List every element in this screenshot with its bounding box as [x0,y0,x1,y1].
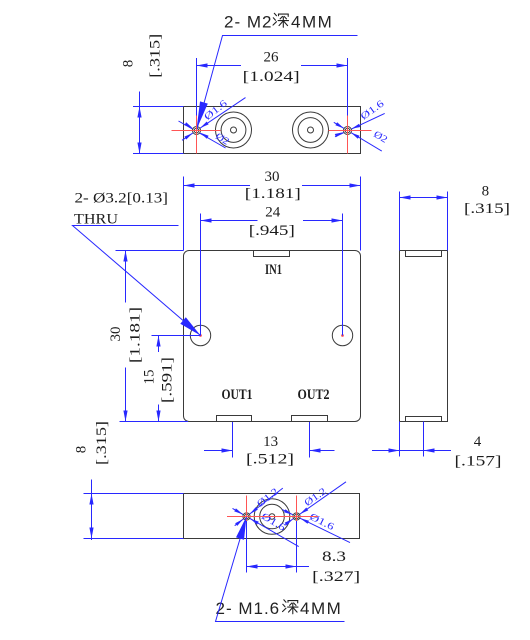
svg-text:OUT2: OUT2 [298,387,330,403]
dimension text [1.181] [245,186,301,202]
centerline cross bottom holes (red) [227,496,318,545]
top view body outline [184,107,361,154]
dimension 15 extension line [152,335,201,337]
dimension text 26 [264,49,280,65]
IN1 label [265,262,282,278]
dimension 8.3 line and arrows [247,564,310,568]
callout leader arrowhead M1.6 [236,517,247,540]
label phi1.6 at left hole [202,98,229,123]
svg-text:13: 13 [263,434,278,450]
svg-text:[.945]: [.945] [249,223,295,239]
M2 tapped hole right (top view) [344,127,352,135]
dimension text [.315] bottom (rotated) [94,421,110,465]
svg-text:[.157]: [.157] [455,454,502,470]
arrowheads around bottom-left hole [234,507,258,526]
dimension 8 (top view height) extension lines [133,107,184,154]
svg-text:8: 8 [121,60,137,68]
svg-text:8.3: 8.3 [322,549,346,565]
dimension 8 bottom line and arrows [89,480,93,541]
front view body outline [184,251,361,422]
label phi1.2 at bottom-right hole [303,486,329,509]
M1.6 tapped hole right (bottom view) [293,513,300,520]
svg-text:2- Ø3.2[0.13]: 2- Ø3.2[0.13] [75,191,169,207]
label phi1.2 at bottom-left hole [255,486,281,509]
svg-text:30: 30 [265,169,280,185]
label phi1.6 at bottom-right hole [308,512,336,533]
callout text 2- M2 deep 4MM [224,13,333,32]
svg-text:24: 24 [265,205,281,221]
side view body outline [400,251,448,422]
bottom connector circles [254,499,290,535]
M2 tapped hole left (top view) [193,127,201,135]
connector J2 circles (top view right SMA) [293,112,329,148]
svg-text:[.591]: [.591] [160,357,176,403]
dimension text 13 [263,434,278,450]
IN1 connector tab [254,251,290,257]
svg-text:[.327]: [.327] [312,569,360,585]
svg-text:IN1: IN1 [265,262,282,278]
arrowheads around left M2 hole [184,122,208,140]
svg-text:2- M1.6: 2- M1.6 [216,599,281,618]
dimension 15 line and arrows [156,336,160,422]
dimension 24 extension lines [201,214,343,336]
dimension text 30 [265,169,280,185]
mounting hole right (phi3.2) [332,325,352,345]
svg-text:8: 8 [73,446,89,454]
dimension text 8 side [482,183,490,199]
dimension text [.591] (rotated) [160,357,176,403]
dimension 8 side extension lines [400,192,448,251]
dimension 8 bottom extension lines [84,494,184,539]
svg-text:8: 8 [482,183,490,199]
dimension 26 extension lines [197,58,348,131]
dimension text 4 [474,434,482,450]
dimension 13 line and arrows [204,448,335,452]
dimension text [.315] side [464,201,510,217]
dimension text [1.181] left (rotated) [128,307,144,363]
svg-text:OUT1: OUT1 [222,387,253,403]
dimension 30 left extension lines [116,251,189,422]
dimension text [.315] (rotated) [148,34,164,78]
dimension text 8 bottom (rotated) [73,446,89,454]
hole diameter leader lines at bottom-right M1.6 hole [282,482,350,543]
dimension text 24 [265,205,281,221]
centerline cross left M2 hole (red) [172,116,221,154]
svg-text:30: 30 [108,327,124,342]
arrowheads around right M2 hole [335,122,360,138]
dimension text 8.3 [322,549,346,565]
svg-text:[.315]: [.315] [464,201,510,217]
M1.6 tapped hole left (bottom view) [243,513,250,520]
dimension 8.3 extension lines [247,521,297,573]
bottom view body outline [184,494,360,539]
callout leader line for M1.6 [216,517,345,622]
dimension 4 extension lines [400,422,424,457]
label phi1.6 at right hole [359,98,387,122]
OUT1 connector tab [217,416,252,422]
dimension text [.512] [246,452,294,468]
dimension 30 top extension lines [184,177,361,251]
hole diameter leader lines at top-right M2 hole [334,113,385,151]
callout leader arrowhead M2 [197,101,208,129]
dimension 30 top line and arrows [184,183,361,187]
svg-text:4: 4 [474,434,482,450]
dimension 8 side line and arrows [400,195,448,199]
mounting hole left (phi3.2) [190,325,210,345]
dimension text [1.024] [243,69,300,85]
dimension 26 line and arrows [197,63,348,67]
svg-text:[.315]: [.315] [148,34,164,78]
callout text 2- phi3.2[0.13] THRU [74,191,168,228]
svg-text:[.512]: [.512] [246,452,294,468]
svg-text:[1.024]: [1.024] [243,69,300,85]
label phi2 at right hole [371,129,389,146]
connector J1 circles (top view left SMA) [216,112,252,148]
dimension text [.327] [312,569,360,585]
centerline cross right M2 hole (red) [329,116,372,154]
svg-text:2- M2: 2- M2 [224,13,272,32]
arrowheads around bottom-right hole [284,508,309,526]
callout leader line for phi3.2 [73,226,201,336]
dimension text 15 (rotated) [142,370,158,385]
side view top lid tab [406,251,442,257]
OUT1 label [222,387,253,403]
dimension 13 extension lines [233,422,310,458]
callout leader arrowhead phi3.2 [180,317,200,335]
label phi1.6 at bottom-left hole [259,511,287,534]
svg-text:[1.181]: [1.181] [128,307,144,363]
dimension text [.157] [455,454,502,470]
hole diameter leader lines at top-left M2 hole [179,98,246,148]
callout leader line for M2 [197,36,358,131]
dimension text 30 left (rotated) [108,327,124,342]
svg-text:15: 15 [142,370,158,385]
dimension 30 left line and arrows [123,251,127,422]
dimension text [.945] [249,223,295,239]
side view bottom lid tab [406,417,442,422]
OUT2 connector tab [292,416,328,422]
dimension 8 line and arrows [137,92,141,154]
dimension text 8 (rotated) [121,60,137,68]
dimension 24 line and arrows [201,218,343,222]
svg-text:4MM: 4MM [300,599,342,618]
svg-text:4MM: 4MM [291,13,333,32]
callout text 2- M1.6 deep 4MM [216,599,343,618]
svg-text:[1.181]: [1.181] [245,186,301,202]
hole diameter leader lines at bottom-left M1.6 hole [233,488,299,546]
svg-text:[.315]: [.315] [94,421,110,465]
svg-text:26: 26 [264,49,280,65]
OUT2 label [298,387,330,403]
label phi2 at left hole [213,131,231,148]
dimension 4 line and arrows [372,448,451,452]
